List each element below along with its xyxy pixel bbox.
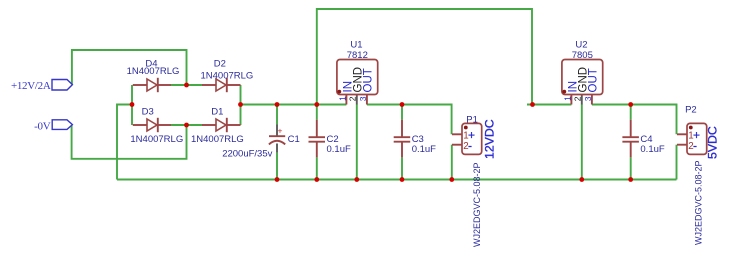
svg-text:D3: D3 [142,107,154,118]
node bridge bottom middle [184,123,189,128]
node U2 gnd rail [579,177,584,182]
op-amp U2 (7805 regulator) [562,39,603,104]
svg-text:WJ2EDGVC-5.08-2P: WJ2EDGVC-5.08-2P [472,162,482,247]
wire bridge left vertical [131,85,133,125]
svg-text:1: 1 [337,96,347,101]
connector P1 [452,115,496,247]
svg-text:C1: C1 [288,134,300,145]
wire +12V/2A input loop to bridge top middle [72,50,187,85]
svg-text:-: - [468,139,472,153]
connector P2 [677,105,720,245]
node bridge right [238,102,243,107]
svg-text:P1: P1 [466,115,478,126]
wire U2 GND pin down to ground rail [581,105,583,180]
svg-text:-: - [693,139,697,153]
node C4 bottom [628,177,633,182]
svg-text:1N4007RLG: 1N4007RLG [191,134,244,145]
wire U1 GND pin down to ground rail [356,105,358,180]
svg-text:+: + [278,126,283,136]
node U2 input [530,102,535,107]
wire 12V rail U1 pin3 to P1 pin1 [367,105,452,135]
node bridge left [130,102,135,107]
svg-text:1N4007RLG: 1N4007RLG [127,66,180,77]
svg-text:WJ2EDGVC-5.08-2P: WJ2EDGVC-5.08-2P [694,160,704,245]
wire bridge right vertical [240,85,242,125]
node C1 bottom [275,177,280,182]
wire P2 pin2 up from ground rail end [676,145,678,180]
svg-text:U2: U2 [575,39,587,50]
svg-text:2: 2 [348,96,358,101]
svg-text:0.1uF: 0.1uF [640,144,664,155]
port +12V/2A [11,80,72,93]
diode D4 [127,58,180,92]
svg-text:7812: 7812 [347,50,368,61]
wire -0V input loop to bridge bottom middle [72,125,187,159]
diode D2 [200,58,253,92]
capacitor C1 [222,105,300,180]
svg-text:1N4007RLG: 1N4007RLG [130,134,183,145]
wire U2 input segment [527,104,571,106]
diode D1 [191,107,244,145]
node C2 top [314,102,319,107]
node C4 top [628,102,633,107]
capacitor C4 [622,105,664,180]
node C3 top [400,102,405,107]
node bridge top middle [184,83,189,88]
capacitor C3 [394,105,436,180]
svg-text:1: 1 [562,96,572,101]
wire top bypass from C2 node to U2 input net [317,9,532,105]
wire unregulated rail bridge to U1 pin1 [241,104,347,106]
svg-text:1N4007RLG: 1N4007RLG [200,70,253,81]
svg-text:OUT: OUT [363,68,375,92]
svg-text:U1: U1 [350,39,362,50]
node P1 gnd [449,177,454,182]
node U1 gnd rail [354,177,359,182]
node C3 bottom [400,177,405,182]
op-amp U1 (7812 regulator) [337,39,378,104]
node C1 top [275,102,280,107]
svg-text:+12V/2A: +12V/2A [11,80,51,92]
svg-text:3: 3 [358,96,368,101]
diode D3 [130,107,183,145]
svg-text:D2: D2 [214,58,226,69]
wire ground rail [117,179,677,181]
wire top row green segment between D4 and D2 [171,84,202,86]
svg-text:D1: D1 [211,107,223,118]
svg-text:12VDC: 12VDC [482,119,496,159]
svg-text:2200uF/35v: 2200uF/35v [222,149,272,160]
node C2 bottom [314,177,319,182]
svg-text:OUT: OUT [588,68,600,92]
svg-text:7805: 7805 [572,50,593,61]
wire bottom row green segment between D3 and D1 [171,124,202,126]
wire 5V rail U2 pin3 to P2 pin1 [592,105,677,135]
svg-text:3: 3 [583,96,593,101]
wire P1 pin2 down to ground rail [451,145,453,180]
svg-text:P2: P2 [685,105,697,116]
svg-text:0.1uF: 0.1uF [412,144,436,155]
capacitor C2 [309,105,351,180]
svg-text:5VDC: 5VDC [706,126,720,159]
wire ground feed from bridge left node down [117,105,132,180]
svg-text:-0V: -0V [34,120,51,132]
svg-text:2: 2 [573,96,583,101]
svg-text:0.1uF: 0.1uF [327,144,351,155]
port -0V [34,120,72,133]
